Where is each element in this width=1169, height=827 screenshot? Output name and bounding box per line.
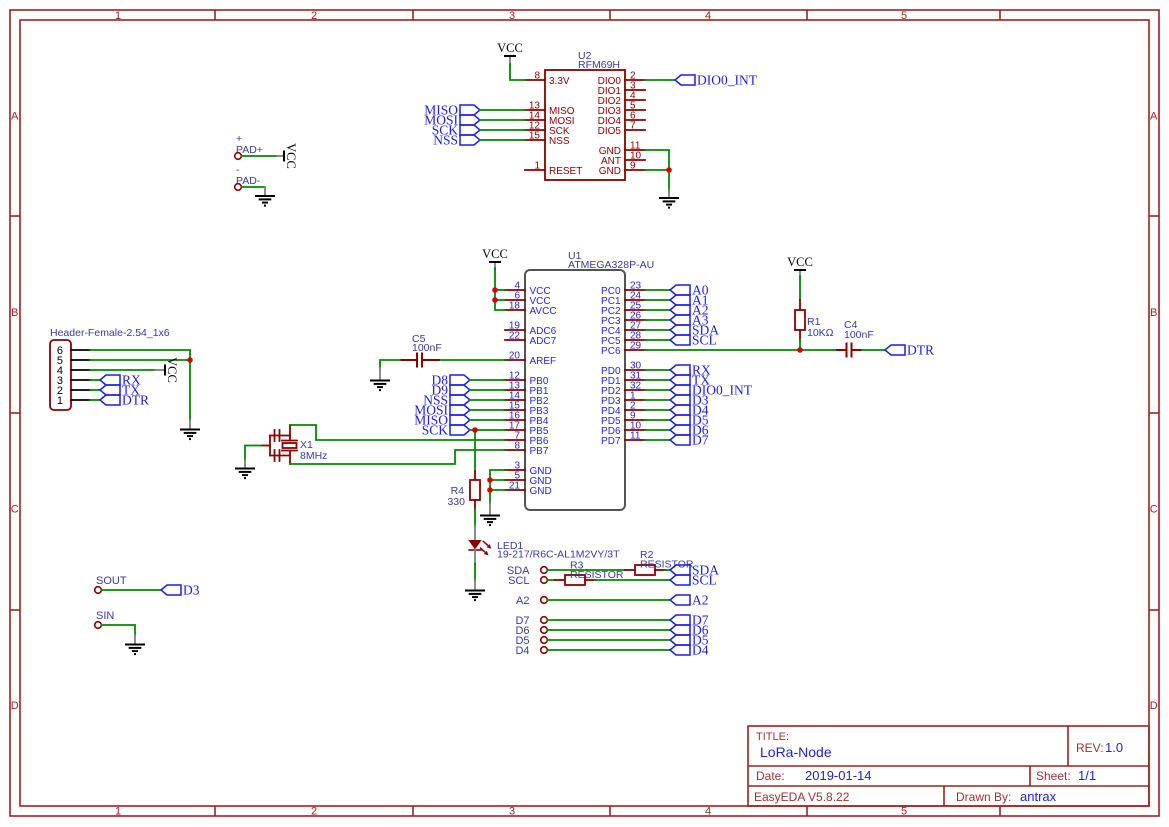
- wire SCK to U2 pin 12: [480, 129, 525, 131]
- wire R2 to SDA flag: [665, 569, 670, 571]
- net flag SCL at R3: [670, 572, 717, 587]
- wire U2 GND pins 11 and 9: [645, 150, 669, 190]
- wire D7 to flag: [548, 619, 671, 621]
- svg-text:8: 8: [534, 71, 540, 82]
- U2 pin 8 (3.3V): [525, 71, 570, 87]
- wire X1 common to ground: [245, 446, 261, 461]
- U1 pin 9 (PD5): [601, 411, 645, 427]
- wire D4 to flag: [548, 649, 671, 651]
- IC U1 ATMEGA328P-AU body: [525, 250, 654, 510]
- wire PAD- to ground: [242, 186, 266, 188]
- net flag MOSI at U1: [414, 402, 470, 417]
- U1 pin 18 (AVCC): [505, 301, 557, 317]
- U1 pin 3 (GND): [505, 461, 552, 477]
- VCC power symbol at U2 pin 8: [497, 41, 523, 66]
- svg-text:DTR: DTR: [122, 392, 149, 407]
- header pin 5: [57, 355, 90, 367]
- net flag A2 at U1: [670, 302, 709, 317]
- net flag SCK at U2: [432, 122, 480, 137]
- capacitor C5 100nF: [400, 333, 442, 368]
- wire U1 to flag D6: [645, 429, 670, 431]
- wire U1 to flag SCL: [645, 339, 670, 341]
- svg-text:2: 2: [311, 806, 317, 818]
- wire U1 to flag TX: [645, 379, 670, 381]
- net flag DIO0_INT at U2: [675, 72, 758, 87]
- svg-text:A2: A2: [516, 595, 529, 607]
- net flag NSS at U2: [433, 132, 480, 147]
- U1 pin 4 (VCC): [505, 281, 551, 297]
- wire U1 to flag A0: [645, 289, 670, 291]
- svg-text:D: D: [11, 700, 19, 712]
- wire SDA to R2: [548, 569, 626, 571]
- wire SCK branch to R4: [474, 430, 476, 471]
- svg-text:VCC: VCC: [482, 247, 508, 261]
- svg-text:2019-01-14: 2019-01-14: [805, 768, 872, 783]
- net flag D6 at port: [670, 622, 709, 637]
- header pin 6: [57, 345, 90, 357]
- U2 pin 11 (GND): [599, 141, 645, 157]
- ground symbol at U2: [659, 190, 679, 208]
- svg-text:D: D: [1150, 700, 1158, 712]
- svg-text:20: 20: [509, 351, 521, 362]
- svg-text:Sheet:: Sheet:: [1036, 769, 1071, 783]
- wire X1 top to U1 PB6: [290, 425, 505, 440]
- connector Header-Female-2.54_1x6: [50, 327, 170, 410]
- U2 pin 2 (DIO0): [598, 71, 645, 87]
- port D5: [515, 635, 547, 647]
- U1 pin 2 (PD4): [601, 401, 645, 417]
- svg-text:GND: GND: [530, 486, 552, 497]
- svg-text:VCC: VCC: [165, 357, 179, 383]
- svg-text:C: C: [11, 504, 19, 516]
- svg-text:4: 4: [705, 806, 711, 818]
- svg-text:AREF: AREF: [530, 356, 557, 367]
- wire header pin 6 to VCC net: [90, 350, 190, 360]
- U1 pin 13 (PB1): [505, 381, 549, 397]
- svg-text:100nF: 100nF: [412, 342, 442, 354]
- net flag D3 at U1: [670, 392, 709, 407]
- junction at (800,350): [797, 347, 803, 353]
- svg-text:19-217/R6C-AL1M2VY/3T: 19-217/R6C-AL1M2VY/3T: [497, 549, 620, 561]
- IC U2 RFM69H body: [545, 50, 625, 180]
- svg-text:SOUT: SOUT: [96, 575, 127, 587]
- VCC power symbol at header pin 4 (rotated): [155, 357, 179, 383]
- U1 pin 10 (PD6): [601, 421, 645, 437]
- U1 pin 25 (PC2): [601, 301, 645, 317]
- svg-text:DIO0_INT: DIO0_INT: [697, 72, 758, 87]
- wire U1 to flag A1: [645, 299, 670, 301]
- net flag D5 at port: [670, 632, 709, 647]
- net flag A2 at port: [670, 592, 709, 607]
- header pin 3: [57, 375, 90, 387]
- wire D8 to U1: [470, 379, 505, 381]
- wire header to flag TX: [90, 389, 100, 391]
- svg-text:21: 21: [509, 481, 521, 492]
- net flag D8 at U1: [432, 372, 471, 387]
- U2 pin 1 (RESET): [525, 161, 582, 177]
- port SOUT: [95, 575, 127, 593]
- svg-text:VCC: VCC: [787, 255, 813, 269]
- wire SCL to R3: [548, 579, 556, 581]
- U1 pin 19 (ADC6): [505, 321, 557, 337]
- U1 pin 22 (ADC7): [505, 331, 557, 347]
- wire VCC to R1: [799, 276, 801, 300]
- svg-text:D7: D7: [692, 432, 709, 447]
- svg-text:D3: D3: [183, 582, 200, 597]
- wire X1 bottom to U1 PB7: [290, 450, 505, 464]
- wire U1 PC6 to C4: [645, 349, 836, 351]
- svg-text:18: 18: [509, 301, 521, 312]
- net flag MOSI at U2: [424, 112, 480, 127]
- U1 pin 16 (PB4): [505, 411, 549, 427]
- svg-text:2: 2: [311, 10, 317, 22]
- net flag SCL at U1: [670, 332, 717, 347]
- U1 pin 11 (PD7): [601, 431, 645, 447]
- U1 pin 32 (PD2): [601, 381, 645, 397]
- title block: [748, 726, 1149, 806]
- port D4: [515, 645, 547, 657]
- svg-text:Drawn By:: Drawn By:: [956, 790, 1011, 804]
- wire U1 to flag RX: [645, 369, 670, 371]
- svg-text:SCL: SCL: [508, 575, 529, 587]
- U1 pin 17 (PB5): [505, 421, 549, 437]
- net flag TX at header: [100, 382, 140, 397]
- VCC power symbol at PAD+ (rotated): [277, 143, 298, 169]
- net flag A0 at U1: [670, 282, 709, 297]
- VCC power symbol at R1: [787, 255, 813, 278]
- svg-text:SCL: SCL: [692, 332, 717, 347]
- port PAD-: [235, 164, 261, 190]
- junction at (495,290): [492, 287, 498, 293]
- svg-text:VCC: VCC: [284, 143, 298, 169]
- crystal X1 8MHz: [261, 425, 327, 464]
- resistor R2 RESISTOR: [625, 549, 694, 575]
- wire header pin 4 to VCC: [90, 369, 155, 371]
- svg-text:7: 7: [630, 121, 636, 132]
- wire SIN to ground: [102, 625, 136, 635]
- U1 pin 24 (PC1): [601, 291, 645, 307]
- junction at (490,480): [487, 477, 493, 483]
- U1 pin 5 (GND): [505, 471, 552, 487]
- wire AREF to C5: [440, 359, 505, 361]
- VCC power symbol at U1: [482, 247, 508, 270]
- port SDA: [507, 565, 547, 577]
- wire R3 to SCL flag: [595, 579, 670, 581]
- net flag NSS at U1: [423, 392, 470, 407]
- port SCL: [508, 575, 547, 587]
- svg-text:antrax: antrax: [1020, 789, 1057, 804]
- net flag DIO0_INT at U1: [670, 382, 753, 397]
- wire A2 to flag: [548, 599, 671, 601]
- U1 pin 30 (PD0): [601, 361, 645, 377]
- U2 pin 7 (DIO5): [598, 121, 645, 137]
- wire MISO to U2 pin 13: [480, 109, 525, 111]
- resistor R3 RESISTOR: [555, 560, 624, 586]
- resistor R1 10K: [795, 300, 834, 340]
- svg-text:EasyEDA V5.8.22: EasyEDA V5.8.22: [754, 790, 850, 804]
- U1 pin 21 (GND): [505, 481, 552, 497]
- svg-text:3: 3: [509, 806, 515, 818]
- svg-text:5: 5: [901, 806, 907, 818]
- wire NSS to U2 pin 15: [480, 139, 525, 141]
- U2 pin 9 (GND): [599, 161, 645, 177]
- net flag DTR: [885, 342, 934, 357]
- ground symbol at X1: [235, 460, 255, 478]
- junction at (190,360): [187, 357, 193, 363]
- U2 pin 10 (ANT): [601, 151, 645, 167]
- svg-text:GND: GND: [599, 166, 621, 177]
- svg-text:SCK: SCK: [422, 422, 449, 437]
- port D7: [515, 615, 547, 627]
- net flag D5 at U1: [670, 412, 709, 427]
- wire U1 to flag DIO0_INT: [645, 389, 670, 391]
- wire U1 to flag D5: [645, 419, 670, 421]
- U1 pin 31 (PD1): [601, 371, 645, 387]
- svg-text:PC6: PC6: [601, 346, 621, 357]
- net flag MISO at U2: [424, 102, 480, 117]
- wire MOSI to U2 pin 14: [480, 119, 525, 121]
- capacitor C4 100nF: [836, 319, 874, 358]
- wire U1 to flag D4: [645, 409, 670, 411]
- U1 pin 23 (PC0): [601, 281, 645, 297]
- svg-text:PB7: PB7: [530, 446, 549, 457]
- U2 pin 5 (DIO3): [598, 101, 645, 117]
- svg-text:B: B: [1150, 307, 1157, 319]
- wire U1 to flag D3: [645, 399, 670, 401]
- ground symbol at header: [180, 420, 200, 439]
- svg-text:D4: D4: [692, 642, 709, 657]
- wire D9 to U1: [470, 389, 505, 391]
- wire header to flag DTR: [90, 399, 100, 401]
- wire MISO to U1: [470, 419, 505, 421]
- net flag A3 at U1: [670, 312, 709, 327]
- svg-text:1/1: 1/1: [1078, 768, 1096, 783]
- ground symbol at PAD-: [255, 187, 275, 206]
- header pin 1: [57, 395, 90, 407]
- svg-text:4: 4: [705, 10, 711, 22]
- svg-text:1.0: 1.0: [1105, 740, 1123, 755]
- svg-text:3.3V: 3.3V: [549, 76, 570, 87]
- svg-text:VCC: VCC: [497, 41, 523, 55]
- net flag SDA at U1: [670, 322, 719, 337]
- U1 pin 8 (PB7): [505, 441, 549, 457]
- svg-text:A2: A2: [692, 592, 709, 607]
- svg-text:Header-Female-2.54_1x6: Header-Female-2.54_1x6: [50, 327, 170, 339]
- port PAD+: [235, 133, 263, 159]
- net flag D4 at port: [670, 642, 709, 657]
- wire U1 to flag SDA: [645, 329, 670, 331]
- svg-text:3: 3: [509, 10, 515, 22]
- svg-text:SCL: SCL: [692, 572, 717, 587]
- svg-text:1: 1: [57, 395, 63, 407]
- net flag RX at header: [100, 372, 141, 387]
- svg-text:29: 29: [630, 341, 642, 352]
- wire R1 to PC6 net: [799, 340, 801, 350]
- svg-text:A: A: [11, 111, 19, 123]
- net flag TX at U1: [670, 372, 710, 387]
- net flag D7 at U1: [670, 432, 709, 447]
- net flag D4 at U1: [670, 402, 709, 417]
- U2 pin 12 (SCK): [525, 121, 570, 137]
- net flag A1 at U1: [670, 292, 709, 307]
- junction at (669,170): [666, 167, 672, 173]
- svg-text:Date:: Date:: [756, 769, 785, 783]
- wire LED1 to ground: [474, 564, 476, 580]
- port A2: [516, 595, 547, 607]
- svg-text:5: 5: [901, 10, 907, 22]
- wire header to flag RX: [90, 379, 100, 381]
- net flag MISO at U1: [414, 412, 470, 427]
- header pin 2: [57, 385, 90, 397]
- svg-text:330: 330: [447, 496, 465, 508]
- header pin 4: [57, 365, 90, 377]
- wire header pin 5 to VCC net: [90, 359, 190, 361]
- svg-text:15: 15: [529, 131, 541, 142]
- svg-text:DIO5: DIO5: [598, 126, 622, 137]
- svg-text:8MHz: 8MHz: [300, 450, 327, 462]
- svg-text:22: 22: [509, 331, 521, 342]
- wire NSS to U1: [470, 399, 505, 401]
- svg-text:C: C: [1150, 504, 1158, 516]
- wire D5 to flag: [548, 639, 671, 641]
- wire SOUT to D3 flag: [102, 589, 162, 591]
- svg-text:RFM69H: RFM69H: [578, 59, 620, 71]
- ground symbol at SIN: [125, 635, 145, 654]
- svg-text:D4: D4: [515, 645, 529, 657]
- svg-text:1: 1: [115, 10, 121, 22]
- net flag RX at U1: [670, 362, 711, 377]
- svg-text:100nF: 100nF: [844, 329, 874, 341]
- resistor R4 330: [447, 471, 480, 509]
- svg-text:TITLE:: TITLE:: [756, 731, 789, 743]
- port D6: [515, 625, 547, 637]
- wire U1 to flag D7: [645, 439, 670, 441]
- svg-text:1: 1: [115, 806, 121, 818]
- svg-text:SIN: SIN: [96, 610, 114, 622]
- svg-text:11: 11: [630, 431, 641, 442]
- net flag SCK at U1: [422, 422, 470, 437]
- wire PAD+ to VCC: [242, 155, 278, 157]
- svg-text:DTR: DTR: [907, 342, 934, 357]
- net flag SDA at R2: [670, 562, 719, 577]
- svg-text:PD7: PD7: [601, 436, 621, 447]
- ground symbol at C5: [370, 368, 390, 390]
- net flag D9 at U1: [432, 382, 471, 397]
- svg-text:9: 9: [630, 161, 636, 172]
- svg-text:RESET: RESET: [549, 166, 582, 177]
- net flag D7 at port: [670, 612, 709, 627]
- svg-text:LoRa-Node: LoRa-Node: [760, 744, 832, 760]
- svg-text:ADC7: ADC7: [530, 336, 557, 347]
- junction at (490,490): [487, 487, 493, 493]
- wire VCC to U1 pins 4 6 18: [495, 268, 505, 310]
- wire VCC to U2 pin 8: [510, 64, 525, 80]
- wire C5 to ground: [380, 360, 400, 368]
- ground symbol at U1: [480, 503, 500, 525]
- svg-text:AVCC: AVCC: [530, 306, 557, 317]
- U2 pin 15 (NSS): [525, 131, 570, 147]
- wire R4 to LED1: [474, 509, 476, 526]
- svg-text:ATMEGA328P-AU: ATMEGA328P-AU: [568, 259, 654, 271]
- svg-text:REV:: REV:: [1076, 741, 1104, 755]
- svg-text:8: 8: [514, 441, 520, 452]
- U1 pin 29 (PC6): [601, 341, 645, 357]
- U2 pin 3 (DIO1): [598, 81, 645, 97]
- wire U1 to flag A2: [645, 309, 670, 311]
- U1 pin 14 (PB2): [505, 391, 549, 407]
- ground symbol below LED1: [465, 580, 485, 600]
- U1 pin 28 (PC5): [601, 331, 645, 347]
- wire U2 pin 2 DIO0 to flag: [645, 79, 675, 81]
- net flag DTR at header: [100, 392, 149, 407]
- net flag D6 at U1: [670, 422, 709, 437]
- U1 pin 15 (PB3): [505, 401, 549, 417]
- U1 pin 1 (PD3): [601, 391, 645, 407]
- U2 pin 13 (MISO): [525, 101, 575, 117]
- wire D6 to flag: [548, 629, 671, 631]
- U1 pin 12 (PB0): [505, 371, 549, 387]
- svg-text:A: A: [1150, 111, 1158, 123]
- wire SCK to U1: [470, 429, 505, 431]
- U1 pin 6 (VCC): [505, 291, 551, 307]
- U2 pin 6 (DIO4): [598, 111, 645, 127]
- net flag D3 at SOUT: [161, 582, 200, 597]
- U2 pin 4 (DIO2): [598, 91, 645, 107]
- U1 pin 7 (PB6): [505, 431, 549, 447]
- junction at (475,430): [472, 427, 478, 433]
- svg-text:1: 1: [534, 161, 540, 172]
- junction at (495,300): [492, 297, 498, 303]
- wire C4 to DTR flag: [862, 349, 885, 351]
- U2 pin 14 (MOSI): [525, 111, 575, 127]
- U1 pin 26 (PC3): [601, 311, 645, 327]
- svg-text:B: B: [11, 307, 18, 319]
- wire MOSI to U1: [470, 409, 505, 411]
- port SIN: [95, 610, 115, 628]
- U1 pin 20 (AREF): [505, 351, 556, 367]
- wire header VCC net down to ground: [189, 360, 191, 420]
- wire U1 to flag A3: [645, 319, 670, 321]
- LED LED1 19-217/R6C-AL1M2VY/3T: [468, 526, 620, 564]
- svg-text:NSS: NSS: [549, 136, 570, 147]
- wire U1 GND pins 3 5 21: [490, 470, 505, 503]
- svg-text:10KΩ: 10KΩ: [807, 327, 834, 339]
- U1 pin 27 (PC4): [601, 321, 645, 337]
- svg-text:NSS: NSS: [433, 132, 458, 147]
